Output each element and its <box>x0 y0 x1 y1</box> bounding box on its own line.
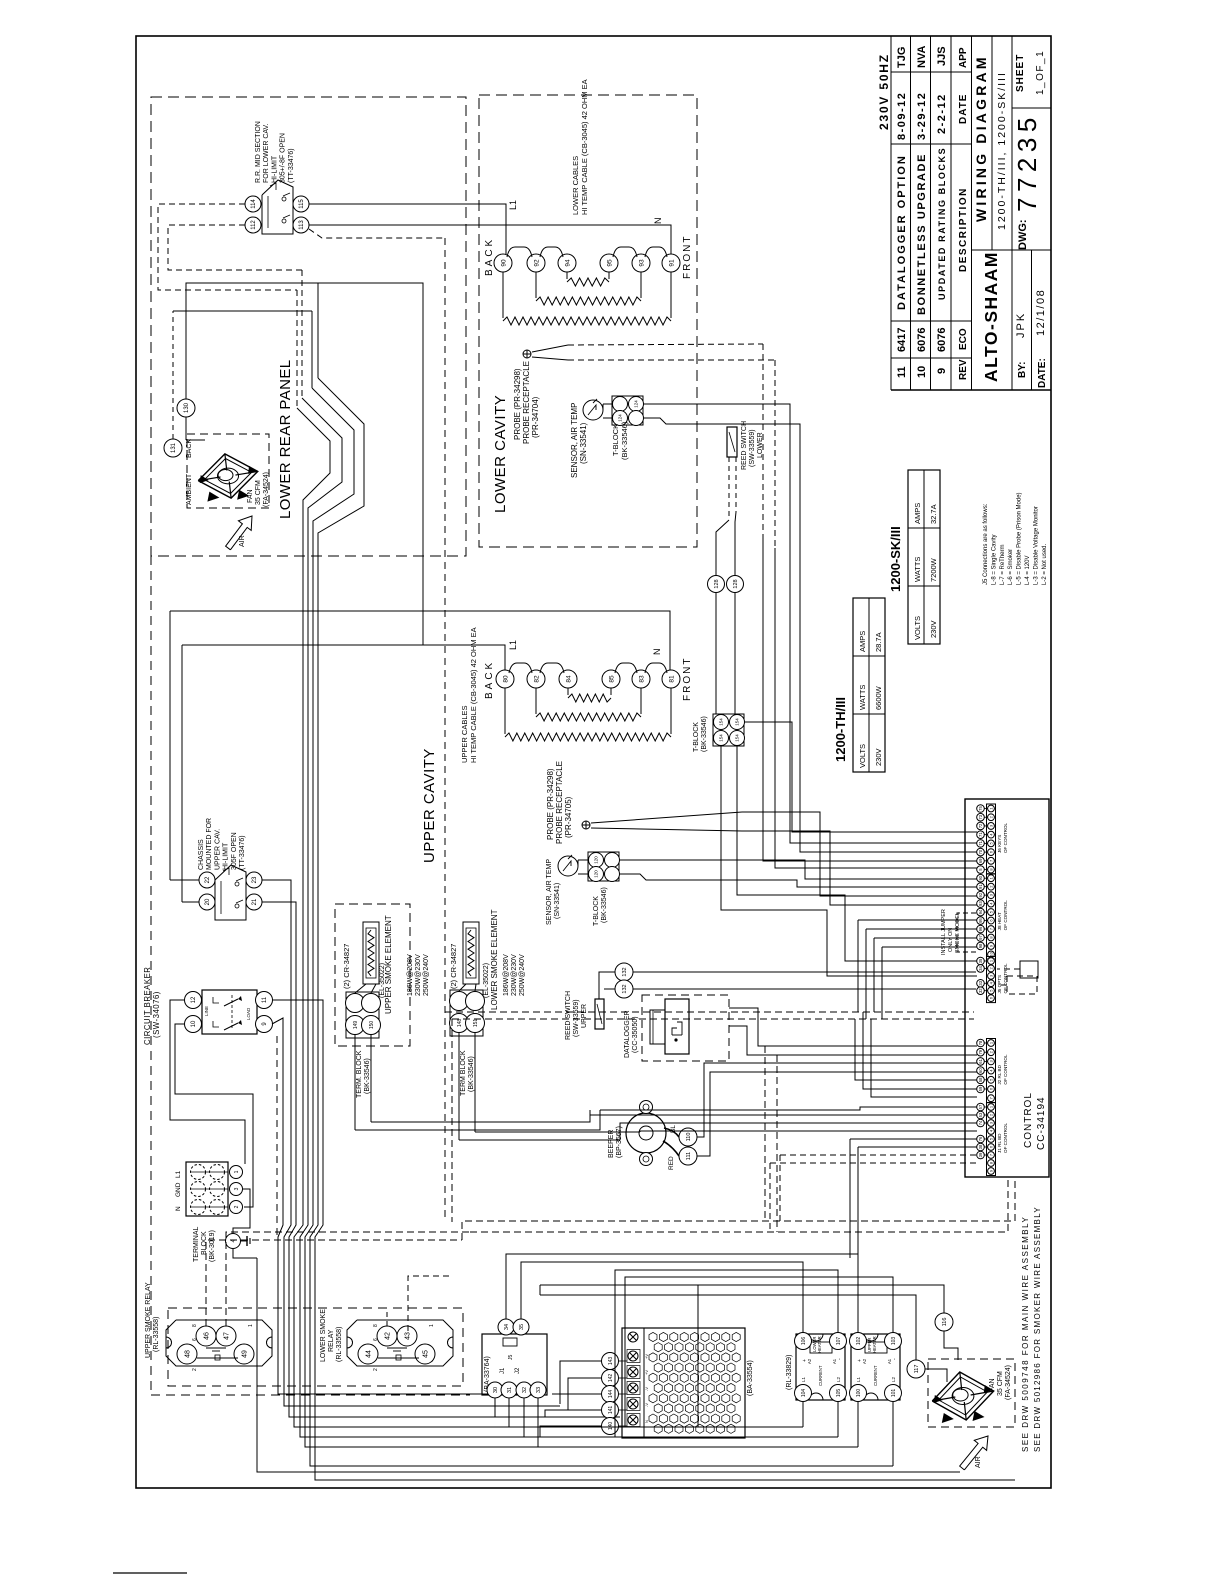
terminal 22 <box>199 872 215 888</box>
svg-text:11: 11 <box>896 366 908 378</box>
svg-text:UPPER CABLES: UPPER CABLES <box>460 705 469 763</box>
probe PR-34298 lower <box>523 350 531 358</box>
dashed lower trunk <box>462 1177 1015 1240</box>
svg-text:RELAY: RELAY <box>328 1329 335 1352</box>
svg-text:REV: REV <box>958 359 969 380</box>
svg-text:93: 93 <box>638 259 645 267</box>
svg-text:(BK-33546): (BK-33546) <box>364 1058 371 1094</box>
svg-text:J5 OPTS: J5 OPTS <box>997 975 1002 994</box>
power supply BA-33554 <box>622 1328 745 1438</box>
svg-text:107: 107 <box>836 1337 842 1346</box>
svg-text:(SW-34076): (SW-34076) <box>152 991 161 1038</box>
svg-text:N: N <box>652 649 662 656</box>
stair wires power area <box>506 1254 858 1332</box>
terminal 128 a <box>708 576 725 593</box>
svg-text:FAN: FAN <box>989 1378 996 1392</box>
t-block lower wires right <box>643 404 977 843</box>
datalogger wires <box>729 1008 977 1046</box>
page footer mark <box>113 1572 187 1574</box>
terminal 113 <box>293 217 309 233</box>
svg-text:(FA-34524): (FA-34524) <box>1005 1365 1012 1400</box>
svg-text:(2) CR-34827: (2) CR-34827 <box>342 944 351 989</box>
svg-text:79: 79 <box>978 1049 983 1054</box>
svg-text:186W@208V: 186W@208V <box>503 954 510 996</box>
svg-text:(2) CR-34827: (2) CR-34827 <box>449 944 458 989</box>
heater element lower long <box>502 272 504 318</box>
svg-text:AIR: AIR <box>239 535 246 547</box>
svg-text:38: 38 <box>978 1144 983 1149</box>
ambient fan dashed box <box>187 434 269 508</box>
svg-text:(BA-33554): (BA-33554) <box>747 1360 754 1396</box>
svg-text:1: 1 <box>234 1170 240 1173</box>
svg-text:SEE DRW 5012986 FOR SMOKER WIR: SEE DRW 5012986 FOR SMOKER WIRE ASSEMBLY <box>1033 1206 1042 1452</box>
svg-text:12/1/08: 12/1/08 <box>1035 289 1047 336</box>
table 1200-TH/III <box>853 598 885 772</box>
svg-text:L-2 = Not used.: L-2 = Not used. <box>1042 543 1048 585</box>
power board BA-33764 <box>482 1334 547 1395</box>
svg-text:131: 131 <box>171 442 177 453</box>
svg-text:30: 30 <box>493 1387 499 1393</box>
svg-text:JPK: JPK <box>1015 312 1027 338</box>
svg-text:97: 97 <box>978 934 983 939</box>
svg-text:WATTS: WATTS <box>913 557 922 582</box>
table 1200-SK/III <box>908 470 940 644</box>
svg-text:DATALOGGER: DATALOGGER <box>624 1010 631 1058</box>
wires probe dashed trunk to J6 <box>762 344 764 540</box>
terminal 43 <box>397 1326 417 1346</box>
wire fan to 131 dashed <box>172 311 174 439</box>
terminal 9 <box>256 1016 273 1033</box>
wire L1 upper rail <box>182 645 505 670</box>
svg-text:(SN-33541): (SN-33541) <box>579 422 588 464</box>
J8 feed wires <box>858 919 977 921</box>
J5 connector on board <box>503 1338 517 1346</box>
svg-text:ALTO-SHAAM: ALTO-SHAAM <box>981 251 1001 382</box>
svg-text:53: 53 <box>978 1112 983 1117</box>
svg-text:80: 80 <box>502 675 509 683</box>
dashed left trunk <box>150 556 152 1395</box>
svg-text:2: 2 <box>373 1368 379 1371</box>
svg-text:104: 104 <box>801 1389 807 1398</box>
svg-text:95: 95 <box>978 918 983 923</box>
svg-text:3: 3 <box>234 1187 240 1190</box>
svg-text:PROBE RECEPTACLE: PROBE RECEPTACLE <box>522 361 531 444</box>
terminal 4 ground <box>226 1234 241 1249</box>
svg-text:PROBE RECEPTACLE: PROBE RECEPTACLE <box>555 761 564 844</box>
lower heater terminals <box>494 254 512 272</box>
wires reed lower to 128 pair <box>728 457 730 520</box>
svg-text:REED SWITCH: REED SWITCH <box>741 421 748 470</box>
wire dashed 112 feed <box>168 225 302 270</box>
dashed vertical feeders right <box>764 1046 766 1221</box>
svg-text:+V: +V <box>644 1370 649 1375</box>
svg-text:TERMINAL: TERMINAL <box>193 1227 200 1263</box>
svg-text:N: N <box>644 1420 649 1423</box>
svg-text:91: 91 <box>978 884 983 889</box>
power supply terminal wires <box>618 1360 627 1362</box>
terminal 20 <box>199 894 215 910</box>
svg-text:FRONT: FRONT <box>682 235 693 279</box>
connector J2 of control <box>987 1039 996 1103</box>
term block BK-33546 lower smoke <box>450 990 483 1036</box>
svg-text:+V: +V <box>644 1354 649 1359</box>
svg-text:1: 1 <box>248 1324 254 1327</box>
svg-text:250W@240V: 250W@240V <box>423 954 430 996</box>
svg-text:141: 141 <box>608 1406 614 1415</box>
svg-text:45: 45 <box>422 1350 429 1358</box>
svg-text:130: 130 <box>184 402 190 413</box>
svg-text:CURRENT: CURRENT <box>873 1365 878 1386</box>
svg-text:L1: L1 <box>508 640 518 650</box>
svg-text:PROBE (PR-34298): PROBE (PR-34298) <box>513 368 522 440</box>
svg-text:110: 110 <box>686 1133 692 1142</box>
svg-text:(BK-33546): (BK-33546) <box>601 887 608 923</box>
wires breaker load side <box>272 1000 1015 1480</box>
svg-text:305+/-8F OPEN: 305+/-8F OPEN <box>280 133 287 183</box>
lower cavity dashed enclosure <box>479 95 697 547</box>
svg-text:23: 23 <box>252 876 258 883</box>
control board CC-34194 <box>965 799 1049 1177</box>
svg-text:1: 1 <box>429 1324 435 1327</box>
svg-text:LINE: LINE <box>204 1006 209 1016</box>
terminal 143 <box>602 1353 619 1370</box>
connector J1 of control <box>987 1103 996 1176</box>
upper smoke relay internals <box>206 1347 226 1349</box>
svg-text:REED SWITCH: REED SWITCH <box>565 991 572 1040</box>
svg-text:BLOCK: BLOCK <box>201 1231 208 1255</box>
svg-text:N: N <box>175 1206 182 1211</box>
svg-text:(RL-33829): (RL-33829) <box>786 1355 793 1390</box>
svg-text:CURRENT: CURRENT <box>818 1365 823 1386</box>
hi-limit switch TT-33476 lower <box>262 180 293 234</box>
terminal 49 <box>234 1344 254 1364</box>
svg-text:111: 111 <box>686 1152 692 1160</box>
wires 128 to t-block <box>715 593 717 714</box>
svg-text:TJG: TJG <box>896 47 908 68</box>
svg-text:J1 RL BD: J1 RL BD <box>997 1133 1002 1153</box>
svg-text:PROBE (PR-34298): PROBE (PR-34298) <box>546 768 555 840</box>
svg-text:2-2-12: 2-2-12 <box>936 93 948 134</box>
terminal 44 <box>358 1344 378 1364</box>
svg-text:OF CONTROL: OF CONTROL <box>1003 900 1008 931</box>
svg-text:10: 10 <box>916 366 928 378</box>
svg-text:72: 72 <box>978 823 983 828</box>
svg-text:10: 10 <box>191 1020 197 1027</box>
terminal block BK-3019 <box>186 1162 228 1216</box>
svg-text:112: 112 <box>251 220 257 230</box>
svg-text:6600W: 6600W <box>874 685 883 710</box>
svg-text:124: 124 <box>618 414 623 422</box>
sensor SN-33541 upper <box>558 856 578 876</box>
svg-text:L-6 = Smoker: L-6 = Smoker <box>1008 549 1014 585</box>
wire dashed 113 riser <box>309 229 445 238</box>
svg-text:114: 114 <box>251 199 257 209</box>
svg-text:(SN-33541): (SN-33541) <box>554 883 561 919</box>
svg-text:132: 132 <box>622 967 628 976</box>
svg-text:2: 2 <box>192 1368 198 1371</box>
dashed J1 feeds <box>780 1154 977 1156</box>
terminal 102 <box>850 1333 867 1350</box>
svg-text:(EL-35022): (EL-35022) <box>483 963 490 998</box>
t-block BK-33546 lower <box>612 396 643 425</box>
svg-text:UPPER CAV.: UPPER CAV. <box>214 829 221 870</box>
terminal 48 <box>177 1344 197 1364</box>
wire 23 to bundle <box>262 880 560 1406</box>
lower smoke element EL-35022 <box>463 922 479 984</box>
svg-text:2: 2 <box>234 1205 240 1208</box>
jumper box solid <box>1020 961 1038 978</box>
sensor SN-33541 lower <box>583 400 603 420</box>
svg-text:HEATER: HEATER <box>817 1336 822 1353</box>
svg-text:100: 100 <box>856 1389 862 1398</box>
svg-text:39: 39 <box>978 1152 983 1157</box>
upper smoke relay RL-33558 <box>166 1320 272 1366</box>
wires lower smoke element to block <box>459 984 466 991</box>
svg-text:33: 33 <box>536 1387 542 1393</box>
beeper BP-3567 <box>626 1113 666 1153</box>
svg-text:HI TEMP CABLE (CB-3045) 42 OHM: HI TEMP CABLE (CB-3045) 42 OHM EA <box>580 79 589 215</box>
svg-text:(TT-33476): (TT-33476) <box>288 148 295 183</box>
svg-text:1200-TH/III: 1200-TH/III <box>833 697 848 762</box>
jumper bracket <box>957 913 976 952</box>
lower rear panel dashed enclosure <box>151 97 466 556</box>
air arrow bottom <box>960 1436 988 1470</box>
svg-text:91: 91 <box>668 259 675 267</box>
smoke block wires to bottom <box>355 1110 600 1130</box>
svg-text:1200-SK/III: 1200-SK/III <box>888 526 903 592</box>
terminal 47 <box>216 1326 236 1346</box>
svg-text:22: 22 <box>205 876 211 883</box>
terminal 1 <box>230 1166 243 1179</box>
wires reed upper <box>599 972 615 999</box>
lower heater relay RL-33829 <box>796 1334 845 1400</box>
power supply vent pattern <box>649 1332 657 1341</box>
svg-text:305F OPEN: 305F OPEN <box>231 832 238 870</box>
svg-text:81: 81 <box>668 675 675 683</box>
fan bottom wires <box>540 1285 944 1313</box>
svg-text:8-09-12: 8-09-12 <box>896 92 908 140</box>
terminal 111 <box>679 1147 697 1165</box>
wire N into 91 <box>309 225 671 254</box>
upper smoke element assembly dashed box <box>335 904 410 1046</box>
svg-text:N: N <box>653 218 663 225</box>
svg-text:L-5 = Disable Probe (Prison Mo: L-5 = Disable Probe (Prison Mode) <box>1017 492 1023 585</box>
wire 130 up to rail <box>186 283 423 645</box>
title block grid <box>890 36 892 390</box>
svg-text:J1: J1 <box>500 1367 506 1374</box>
connector J8 of control <box>987 874 996 959</box>
svg-text:34: 34 <box>978 965 983 970</box>
terminal 101 <box>885 1385 902 1402</box>
svg-text:L-8 = Single Cavity: L-8 = Single Cavity <box>991 534 997 585</box>
terminal 12 <box>185 992 202 1009</box>
svg-text:113: 113 <box>299 220 305 230</box>
svg-text:DATALOGGER OPTION: DATALOGGER OPTION <box>896 154 908 310</box>
svg-text:95: 95 <box>606 259 613 267</box>
svg-text:SENSOR, AIR TEMP: SENSOR, AIR TEMP <box>546 859 553 925</box>
svg-text:250W@240V: 250W@240V <box>519 954 526 996</box>
heater element lower mid <box>535 272 537 298</box>
svg-text:230V: 230V <box>874 748 883 766</box>
probe upper wires <box>742 812 977 896</box>
svg-text:75: 75 <box>978 806 983 811</box>
svg-text:28.7A: 28.7A <box>874 632 883 652</box>
svg-text:1200-TH/III, 1200-SK/III: 1200-TH/III, 1200-SK/III <box>996 71 1008 230</box>
wires beeper to control <box>697 1063 977 1137</box>
svg-text:144: 144 <box>608 1390 614 1399</box>
svg-text:AMBIENT: AMBIENT <box>186 473 193 505</box>
svg-text:HI-LIMIT: HI-LIMIT <box>271 155 278 183</box>
datalogger dashed box <box>642 995 729 1061</box>
svg-text:BACK: BACK <box>484 237 495 276</box>
svg-text:(CC-35050): (CC-35050) <box>632 1016 639 1053</box>
terminal 33 <box>530 1382 546 1398</box>
svg-text:BEEPER: BEEPER <box>608 1130 615 1158</box>
reed switch SW-33559 upper <box>595 999 604 1029</box>
fan FA-34524 lower rear <box>198 454 258 498</box>
svg-text:RED: RED <box>668 1156 675 1170</box>
svg-text:120: 120 <box>594 870 599 878</box>
svg-text:60: 60 <box>978 1068 983 1073</box>
t-block BK-33546 heater <box>713 714 744 746</box>
svg-text:44: 44 <box>365 1350 372 1358</box>
svg-text:OF CONTROL: OF CONTROL <box>1003 822 1008 853</box>
svg-text:CONTROL: CONTROL <box>1023 1092 1034 1148</box>
svg-text:6417: 6417 <box>896 328 908 352</box>
svg-text:CC-34194: CC-34194 <box>1036 1096 1047 1150</box>
svg-text:LOWER CAVITY: LOWER CAVITY <box>492 395 509 513</box>
svg-text:(PR-34704): (PR-34704) <box>531 396 540 438</box>
svg-text:70: 70 <box>978 849 983 854</box>
t-block BK-33546 upper sensor <box>588 852 619 881</box>
svg-text:SHEET: SHEET <box>1015 54 1026 92</box>
border frame <box>136 36 1051 1488</box>
svg-text:94: 94 <box>564 259 571 267</box>
svg-text:SEE DRW 5009748 FOR MAIN WIRE: SEE DRW 5009748 FOR MAIN WIRE ASSEMBLY <box>1021 1216 1030 1452</box>
svg-text:HI TEMP CABLE (CB-3045) 42 OHM: HI TEMP CABLE (CB-3045) 42 OHM EA <box>469 627 478 763</box>
svg-text:124: 124 <box>634 400 639 408</box>
svg-text:(PR-34705): (PR-34705) <box>564 796 573 838</box>
terminal 112 <box>245 217 261 233</box>
terminal 23 <box>246 872 262 888</box>
wires upper smoke block down <box>354 1035 356 1130</box>
svg-text:103: 103 <box>891 1337 897 1346</box>
svg-text:UPDATED RATING BLOCKS: UPDATED RATING BLOCKS <box>937 147 947 300</box>
svg-text:74: 74 <box>978 1120 983 1125</box>
svg-text:31: 31 <box>507 1387 513 1393</box>
dashed mid trunk to J5 <box>445 1011 974 1013</box>
svg-text:(BK-33546): (BK-33546) <box>620 421 629 460</box>
svg-text:47: 47 <box>223 1332 230 1340</box>
terminal 140 <box>602 1418 619 1435</box>
svg-text:102: 102 <box>856 1337 862 1346</box>
terminal 116 <box>935 1313 953 1331</box>
svg-text:WIRING DIAGRAM: WIRING DIAGRAM <box>973 54 989 222</box>
terminal 142 <box>602 1370 619 1387</box>
reed switch SW-33559 lower <box>727 427 737 457</box>
svg-text:(SW-33559): (SW-33559) <box>573 999 580 1037</box>
svg-text:(BK-3019): (BK-3019) <box>209 1230 216 1262</box>
terminal 103 <box>885 1333 902 1350</box>
probe PR-34298 upper <box>582 821 590 829</box>
svg-text:132: 132 <box>622 984 628 993</box>
svg-text:142: 142 <box>608 1374 614 1383</box>
svg-text:21: 21 <box>252 898 258 905</box>
jumper box dashed <box>1007 976 1037 994</box>
svg-text:APP: APP <box>958 47 969 68</box>
svg-text:140: 140 <box>608 1422 614 1431</box>
terminal 46 <box>196 1326 216 1346</box>
wire dashed breaker to relay region <box>276 1036 278 1240</box>
svg-text:11: 11 <box>262 996 268 1003</box>
air arrow lower rear <box>226 516 252 550</box>
svg-text:49: 49 <box>241 1350 248 1358</box>
svg-text:J5 Connections are as follows:: J5 Connections are as follows: <box>983 503 989 585</box>
terminal 117 <box>907 1360 925 1378</box>
svg-text:6076: 6076 <box>936 328 948 352</box>
svg-text:JJS: JJS <box>936 46 948 66</box>
svg-text:J2: J2 <box>515 1367 521 1374</box>
svg-text:L1: L1 <box>856 1376 861 1382</box>
fan FA-34524 bottom right <box>932 1372 993 1420</box>
svg-text:35: 35 <box>978 958 983 963</box>
svg-text:230V 50HZ: 230V 50HZ <box>877 53 891 130</box>
terminal 132 a <box>615 963 633 981</box>
wire long J6 pin3 <box>744 722 977 832</box>
svg-text:J8 HEAT: J8 HEAT <box>997 912 1002 930</box>
svg-text:UPPER SMOKE ELEMENT: UPPER SMOKE ELEMENT <box>384 915 393 1014</box>
svg-text:OF CONTROL: OF CONTROL <box>1003 1054 1008 1085</box>
svg-text:59: 59 <box>978 1086 983 1091</box>
svg-text:UPPER CAVITY: UPPER CAVITY <box>421 748 438 863</box>
svg-text:HI-LIMIT: HI-LIMIT <box>223 842 230 870</box>
svg-text:DATE: DATE <box>958 94 969 124</box>
svg-text:8: 8 <box>192 1324 198 1327</box>
hi-limit switch TT-33476 upper <box>215 865 246 920</box>
svg-text:12: 12 <box>191 996 197 1003</box>
svg-text:DWG:: DWG: <box>1017 219 1029 250</box>
svg-text:148: 148 <box>457 1019 463 1028</box>
svg-text:T-BLOCK: T-BLOCK <box>611 424 620 456</box>
board BA-33764 wires <box>505 1318 507 1320</box>
wire fan to 130 <box>185 417 187 440</box>
svg-text:MOUNTED FOR: MOUNTED FOR <box>206 818 213 870</box>
svg-text:L-3 = Disable Voltage Monitor: L-3 = Disable Voltage Monitor <box>1033 506 1039 585</box>
lower smoke relay RL-33558 <box>347 1320 453 1366</box>
terminal 115 <box>293 196 309 212</box>
svg-text:A2: A2 <box>862 1358 867 1364</box>
svg-text:106: 106 <box>801 1337 807 1346</box>
svg-text:LOWER CABLES: LOWER CABLES <box>571 156 580 215</box>
svg-text:VOLTS: VOLTS <box>858 744 867 768</box>
heater element upper small <box>567 688 569 695</box>
svg-text:32: 32 <box>978 988 983 993</box>
svg-text:L2: L2 <box>891 1376 896 1382</box>
wires t-block heater to J5 <box>721 746 977 976</box>
svg-text:1_OF_1: 1_OF_1 <box>1035 50 1046 95</box>
svg-text:20: 20 <box>205 898 211 905</box>
svg-text:L2: L2 <box>836 1376 841 1382</box>
terminal 45 <box>415 1344 435 1364</box>
dashed relay region <box>168 1308 463 1386</box>
svg-text:HEATER: HEATER <box>872 1336 877 1353</box>
svg-text:BACK: BACK <box>484 660 495 699</box>
terminal 21 <box>246 894 262 910</box>
term block BK-33546 upper smoke <box>346 992 379 1038</box>
terminal 104 <box>795 1385 812 1402</box>
svg-text:42: 42 <box>384 1332 391 1340</box>
wire N upper rail <box>170 611 670 670</box>
